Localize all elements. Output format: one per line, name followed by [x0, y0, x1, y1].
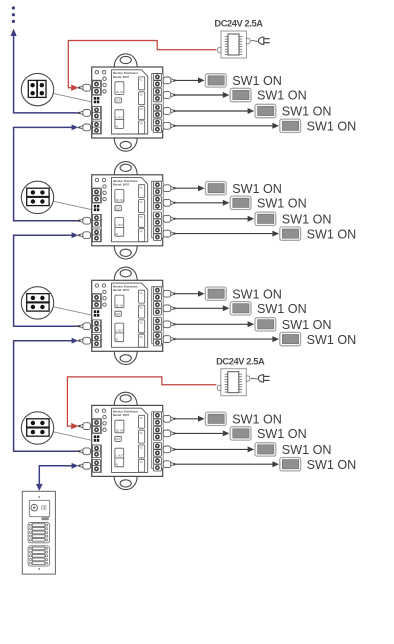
- jumper detail callout leader U2: [53, 201, 91, 209]
- power wire adapter PS1 to module U1: [68, 41, 216, 91]
- jumper detail callout circle U3: [21, 287, 53, 319]
- jumper detail callout circle U2: [21, 181, 53, 213]
- wire riser segment 3: [14, 338, 79, 452]
- wire riser segment 1: [14, 125, 79, 221]
- jumper detail callout leader U1: [53, 93, 91, 101]
- jumper detail callout circle U1: [21, 73, 53, 105]
- power plug on U1: [78, 84, 90, 91]
- door name plate: [42, 517, 49, 520]
- jumper detail callout leader U4: [53, 432, 91, 440]
- distributor module U1: [78, 54, 356, 151]
- distributor module U2: [78, 162, 356, 259]
- door button group 2: [28, 546, 49, 566]
- door station panel: [22, 491, 55, 574]
- jumper detail callout leader U3: [53, 307, 91, 315]
- svg-text:DC24V 2.5A: DC24V 2.5A: [214, 18, 263, 28]
- door camera unit: [29, 500, 49, 516]
- distributor module U4: [78, 392, 356, 489]
- power wire adapter PS2 to module U4: [67, 377, 216, 429]
- power plug on U4: [78, 423, 90, 430]
- door station screws: [38, 496, 40, 570]
- riser continuation dots: [12, 6, 15, 23]
- wire riser up to upper floors: [11, 29, 80, 113]
- jumper detail callout circle U4: [21, 412, 53, 444]
- distributor module U3: [78, 267, 356, 364]
- power supply PS2: [217, 369, 269, 396]
- door button group 1: [28, 523, 49, 543]
- wire riser segment 2: [14, 232, 79, 326]
- svg-text:DC24V 2.5A: DC24V 2.5A: [216, 357, 265, 367]
- power supply PS1: [217, 31, 269, 58]
- wire to door station: [36, 463, 78, 491]
